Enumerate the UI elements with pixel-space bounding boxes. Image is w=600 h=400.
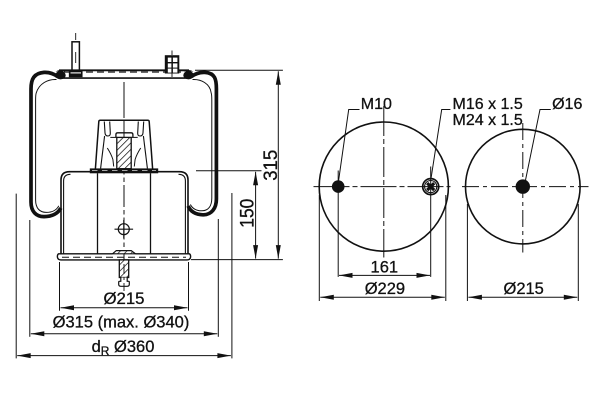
air fitting (threaded block on plate) xyxy=(165,51,180,78)
bolt flange (sectioned bump) xyxy=(113,251,136,254)
dimension Ø215 (right view) xyxy=(467,204,578,301)
cup floor xyxy=(107,148,113,167)
horizontal centerline right circle xyxy=(462,186,589,188)
bead left (rolled crimp) xyxy=(55,71,65,79)
M10 bolt (filled dot) xyxy=(332,180,345,193)
svg-text:161: 161 xyxy=(371,259,399,277)
bellows inner line right xyxy=(190,79,211,210)
horizontal centerline left circle xyxy=(314,186,451,188)
svg-text:Ø16: Ø16 xyxy=(552,96,582,113)
extension through fitting xyxy=(430,167,432,277)
svg-text:M24 x 1.5: M24 x 1.5 xyxy=(453,112,523,129)
dimension Ø315 (max. Ø340) xyxy=(30,219,219,337)
bottom bolt (sectioned) xyxy=(119,260,130,291)
bead right (rolled crimp) xyxy=(183,71,193,79)
svg-text:M10: M10 xyxy=(361,96,392,113)
svg-text:Ø229: Ø229 xyxy=(365,280,405,298)
svg-text:Ø215: Ø215 xyxy=(504,280,544,298)
svg-text:150: 150 xyxy=(238,199,259,228)
vertical centerline right circle xyxy=(522,123,524,253)
centerline of side view xyxy=(123,82,125,262)
circle Ø215 (right top view) xyxy=(466,129,581,244)
center mark (circle-cross) on piston xyxy=(115,220,134,239)
circle Ø229 (left top view) xyxy=(319,122,448,251)
dimension Ø229 xyxy=(319,195,446,301)
piston body xyxy=(61,172,188,254)
stud (top left bolt) xyxy=(70,33,82,77)
piston cup (top trapezoid) xyxy=(95,120,152,169)
piston bottom plate xyxy=(57,251,190,260)
dimension 161 xyxy=(339,274,430,276)
bellows outer outline right xyxy=(188,72,216,214)
svg-text:Ø215: Ø215 xyxy=(104,290,145,308)
bellows outer outline left xyxy=(31,72,61,216)
bellows inner line left xyxy=(36,79,59,212)
central bolt boss (sectioned, hatched) xyxy=(110,133,137,169)
vertical centerline left circle xyxy=(383,106,385,258)
cup bottom flange xyxy=(90,168,158,173)
svg-text:315: 315 xyxy=(261,150,282,181)
top plate xyxy=(59,70,189,78)
dimension Ø215 (left view) xyxy=(60,262,189,311)
extension through M10 bolt xyxy=(337,171,339,277)
Ø16 hole (filled dot) xyxy=(516,179,530,193)
M16/M24 air fitting (circle with cross) xyxy=(423,179,439,195)
cup inner walls xyxy=(101,136,105,168)
bore walls xyxy=(97,173,99,253)
dimension 315 (vertical) xyxy=(191,70,283,259)
dimension dR Ø360 xyxy=(16,193,232,358)
svg-text:Ø315 (max. Ø340): Ø315 (max. Ø340) xyxy=(53,313,190,331)
svg-text:M16 x 1.5: M16 x 1.5 xyxy=(453,96,523,113)
dimension 150 (vertical) xyxy=(196,171,262,259)
